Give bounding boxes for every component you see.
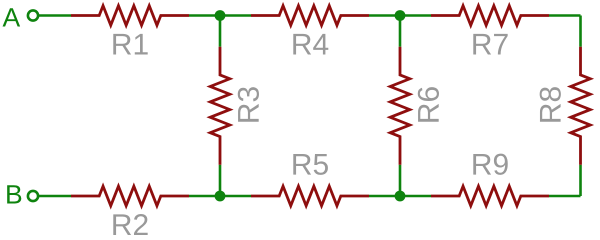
- wire: R8 branch right edge segment 1: [579, 16, 582, 47]
- resistor R3: [210, 47, 230, 165]
- junction dot: top-left junction (R1/R3/R4): [215, 10, 226, 21]
- label R9: [473, 154, 507, 175]
- resistor R8: [571, 47, 591, 165]
- label B: [7, 185, 21, 203]
- wire: bottom rail segment 1: [39, 195, 71, 198]
- wire: top rail segment 4: [549, 14, 581, 17]
- resistor R9: [431, 186, 549, 206]
- wire: top rail segment 1: [39, 14, 71, 17]
- wire: top rail segment 3: [369, 14, 431, 17]
- junction dot: top-right junction (R4/R6/R7): [395, 10, 406, 21]
- wire: R8 branch right edge segment 2: [579, 165, 582, 196]
- terminal A circle: [28, 10, 38, 20]
- resistor R6: [390, 47, 410, 165]
- label R8: [540, 87, 561, 122]
- resistor R1: [71, 6, 189, 26]
- terminal B circle: [28, 191, 38, 201]
- resistor R5: [251, 186, 369, 206]
- label A: [3, 8, 21, 26]
- label R2: [113, 214, 147, 235]
- label R4: [293, 34, 328, 55]
- wire: bottom rail segment 3: [369, 195, 431, 198]
- junction dot: bottom-right junction (R5/R6/R9): [395, 191, 406, 202]
- wire: R6 branch segment 1: [399, 16, 402, 47]
- wire: bottom rail segment 2: [189, 195, 251, 198]
- label R6: [418, 87, 439, 122]
- resistor R7: [431, 6, 549, 26]
- wire: top rail segment 2: [189, 14, 251, 17]
- label R3: [238, 87, 259, 122]
- junction dot: bottom-left junction (R2/R3/R5): [215, 191, 226, 202]
- label R5: [293, 154, 328, 175]
- label R1: [113, 34, 147, 55]
- resistor R2: [71, 186, 189, 206]
- wire: R3 branch segment 2: [219, 165, 222, 196]
- wire: R3 branch segment 1: [219, 16, 222, 47]
- resistor R4: [251, 6, 369, 26]
- wire: bottom rail segment 4: [549, 195, 581, 198]
- wire: R6 branch segment 2: [399, 165, 402, 196]
- label R7: [473, 34, 507, 55]
